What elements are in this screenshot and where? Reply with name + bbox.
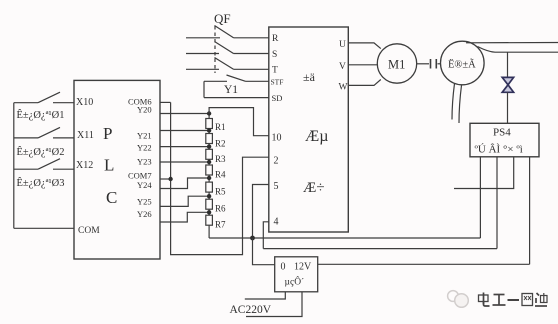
svg-text:Ê±¿Ø¿ª¹Ø2: Ê±¿Ø¿ª¹Ø2 [17, 146, 65, 158]
wire COM6-COM7 link down to pin2 net [171, 102, 269, 254]
svg-text:±ä: ±ä [303, 70, 316, 84]
wire PS4 pin2 down [496, 157, 498, 249]
svg-text:X11: X11 [77, 130, 94, 141]
resistor R1 [206, 114, 226, 133]
wire AC input 1 [245, 292, 285, 299]
junction R5/R6 [207, 194, 211, 198]
wire line A (junction to PS4 pin1) [209, 237, 480, 239]
wire phase R left segment [186, 37, 220, 39]
svg-text:4: 4 [274, 217, 279, 228]
wire pin 5 to junction [253, 185, 269, 239]
wire valve tee [507, 52, 509, 77]
junction R3/R4 [207, 160, 211, 164]
wire Y26 [160, 212, 209, 222]
wire Y21 [160, 130, 209, 132]
svg-text:AC220V: AC220V [230, 304, 272, 316]
svg-text:10: 10 [272, 133, 282, 144]
wire Y24 [160, 178, 209, 189]
svg-text:12V: 12V [294, 262, 312, 273]
svg-text:R2: R2 [215, 139, 226, 149]
wire valve to PS4 [507, 92, 509, 123]
svg-text:R3: R3 [215, 154, 226, 164]
water pump (水泵) [441, 41, 485, 85]
svg-text:R5: R5 [215, 187, 226, 197]
time switch 2 (时控开关2) [14, 127, 74, 158]
svg-text:0: 0 [281, 262, 286, 273]
wire phase S to inverter [234, 53, 269, 55]
svg-text:X10: X10 [76, 97, 93, 108]
svg-text:Y20: Y20 [137, 104, 152, 114]
pipe discharge upper [466, 42, 558, 44]
svg-text:V: V [339, 62, 346, 72]
resistor R3 [206, 147, 226, 164]
通 [535, 293, 547, 306]
svg-text:R6: R6 [215, 204, 226, 214]
time switch 3 (时控开关3) [14, 159, 74, 189]
svg-text:5: 5 [274, 181, 279, 192]
wire switch common bus [13, 103, 15, 229]
junction R1/R2 [207, 128, 211, 132]
wire line C (power supply to PS4 pin4) [318, 263, 530, 265]
wire V to motor [348, 64, 377, 66]
breaker QF [214, 11, 234, 73]
motor M1 [377, 44, 416, 83]
svg-text:PS4: PS4 [493, 127, 511, 139]
svg-text:Y26: Y26 [137, 209, 152, 219]
svg-text:X12: X12 [76, 160, 93, 171]
relay contact Y1 [204, 75, 269, 98]
svg-text:P: P [103, 124, 112, 143]
svg-text:S: S [272, 50, 277, 60]
PLC [74, 80, 160, 259]
svg-text:U: U [339, 40, 346, 50]
wire W to motor [348, 80, 381, 86]
svg-text:Y21: Y21 [137, 130, 152, 140]
junction bottom common [250, 236, 255, 241]
wire pin 4 to line B [263, 222, 269, 249]
svg-text:2: 2 [274, 156, 279, 167]
svg-text:Ë®±Ã: Ë®±Ã [448, 59, 476, 71]
shaft coupling [417, 59, 441, 69]
junction R4/R5 [207, 176, 211, 180]
一 [508, 299, 520, 301]
电 [479, 293, 490, 307]
svg-text:L: L [104, 156, 114, 175]
svg-text:SD: SD [272, 93, 283, 103]
wire COM6 stub [160, 101, 171, 103]
svg-text:Æµ: Æµ [305, 128, 328, 145]
junction COM7 [168, 177, 172, 181]
wire phase R to inverter [234, 37, 269, 39]
wire chain top to pin 10 [209, 108, 269, 136]
svg-text:Y23: Y23 [137, 156, 152, 166]
wire Y22 [160, 146, 209, 148]
svg-text:Ê±¿Ø¿ª¹Ø3: Ê±¿Ø¿ª¹Ø3 [17, 177, 65, 189]
wire Y20 [160, 113, 209, 115]
resistor R4 [206, 162, 226, 180]
svg-text:µçÔ´: µçÔ´ [285, 276, 305, 288]
pipe discharge lower [478, 47, 558, 53]
工 [493, 295, 506, 306]
resistor R7 [206, 212, 226, 238]
svg-text:Y1: Y1 [224, 84, 238, 96]
svg-text:STF: STF [271, 78, 284, 87]
svg-text:Y22: Y22 [137, 142, 152, 152]
svg-text:Y25: Y25 [137, 197, 152, 207]
svg-text:COM7: COM7 [128, 171, 152, 181]
svg-text:QF: QF [214, 11, 231, 26]
junction R6/R7 [207, 210, 211, 214]
pipe suction right [459, 85, 462, 123]
valve [502, 77, 513, 92]
wire line B (pin4 to PS4 pin2) [263, 248, 497, 250]
wire U to motor [348, 43, 381, 49]
wire phase T left segment [186, 68, 219, 70]
svg-text:C: C [106, 188, 117, 207]
wire phase T to inverter [234, 68, 269, 70]
svg-text:Y24: Y24 [137, 180, 152, 190]
wire AC input 2 [246, 292, 302, 317]
watermark text 电工一网通 [479, 293, 548, 307]
svg-text:COM: COM [78, 226, 100, 236]
wire COM7 stub [160, 178, 171, 180]
svg-text:Æ÷: Æ÷ [303, 180, 325, 196]
power supply 0-12V (电源) [275, 257, 318, 292]
svg-text:W: W [339, 83, 348, 93]
wire Y23 [160, 161, 209, 163]
wire COM input [14, 227, 74, 229]
svg-text:R1: R1 [215, 122, 226, 132]
wire phase S left segment [186, 53, 219, 55]
resistor R6 [206, 196, 226, 213]
wire Y25 [160, 196, 209, 206]
pipe suction left [452, 84, 455, 120]
pressure sensor PS4 [470, 123, 539, 157]
svg-text:ºÚ ÂÌ °× ºì: ºÚ ÂÌ °× ºì [475, 144, 523, 156]
网 [522, 294, 533, 306]
resistor R5 [206, 178, 226, 197]
svg-text:T: T [272, 66, 278, 76]
junction R2/R3 [207, 144, 211, 148]
junction chain top [207, 111, 211, 115]
wire junction to power supply 0 [253, 238, 275, 265]
inverter U1 (变频器) [269, 27, 349, 232]
svg-text:R4: R4 [215, 170, 226, 180]
svg-text:R: R [272, 34, 279, 44]
wire PS4 pin1 down [479, 157, 481, 238]
watermark logo [448, 291, 469, 308]
resistor R2 [206, 131, 226, 149]
wire PS4 pin4 down [529, 157, 531, 264]
time switch 1 (时控开关1) [14, 92, 74, 121]
svg-text:Ê±¿Ø¿ª¹Ø1: Ê±¿Ø¿ª¹Ø1 [17, 109, 65, 121]
svg-text:R7: R7 [215, 220, 226, 230]
svg-text:M1: M1 [388, 58, 405, 72]
wire PS4 pin3 down-left [454, 157, 514, 189]
